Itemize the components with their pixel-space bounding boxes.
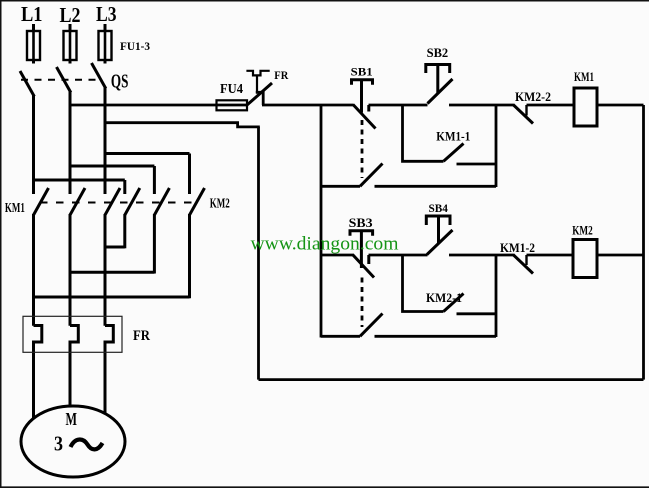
svg-text:KM1: KM1 bbox=[5, 200, 25, 215]
svg-text:L3: L3 bbox=[96, 2, 117, 26]
svg-text:KM2: KM2 bbox=[572, 224, 593, 238]
svg-text:FR: FR bbox=[274, 70, 289, 82]
svg-text:KM1-1: KM1-1 bbox=[436, 129, 470, 144]
svg-text:KM1-2: KM1-2 bbox=[500, 241, 535, 255]
svg-text:FU1-3: FU1-3 bbox=[120, 41, 150, 53]
svg-text:KM2: KM2 bbox=[210, 196, 230, 211]
svg-text:KM2-2: KM2-2 bbox=[515, 89, 551, 104]
svg-text:SB3: SB3 bbox=[349, 216, 373, 230]
svg-text:M: M bbox=[66, 409, 78, 429]
svg-text:KM1: KM1 bbox=[574, 70, 594, 84]
svg-text:FR: FR bbox=[133, 328, 150, 344]
svg-text:SB4: SB4 bbox=[429, 203, 449, 215]
svg-text:L2: L2 bbox=[60, 3, 81, 27]
svg-text:SB1: SB1 bbox=[351, 65, 373, 79]
svg-text:L1: L1 bbox=[21, 2, 43, 26]
svg-text:FU4: FU4 bbox=[220, 81, 243, 96]
svg-text:SB2: SB2 bbox=[427, 45, 449, 60]
svg-text:KM2-1: KM2-1 bbox=[426, 290, 462, 305]
svg-text:www.diangon.com: www.diangon.com bbox=[251, 234, 399, 255]
svg-text:QS: QS bbox=[111, 71, 128, 93]
svg-text:3: 3 bbox=[54, 432, 63, 456]
